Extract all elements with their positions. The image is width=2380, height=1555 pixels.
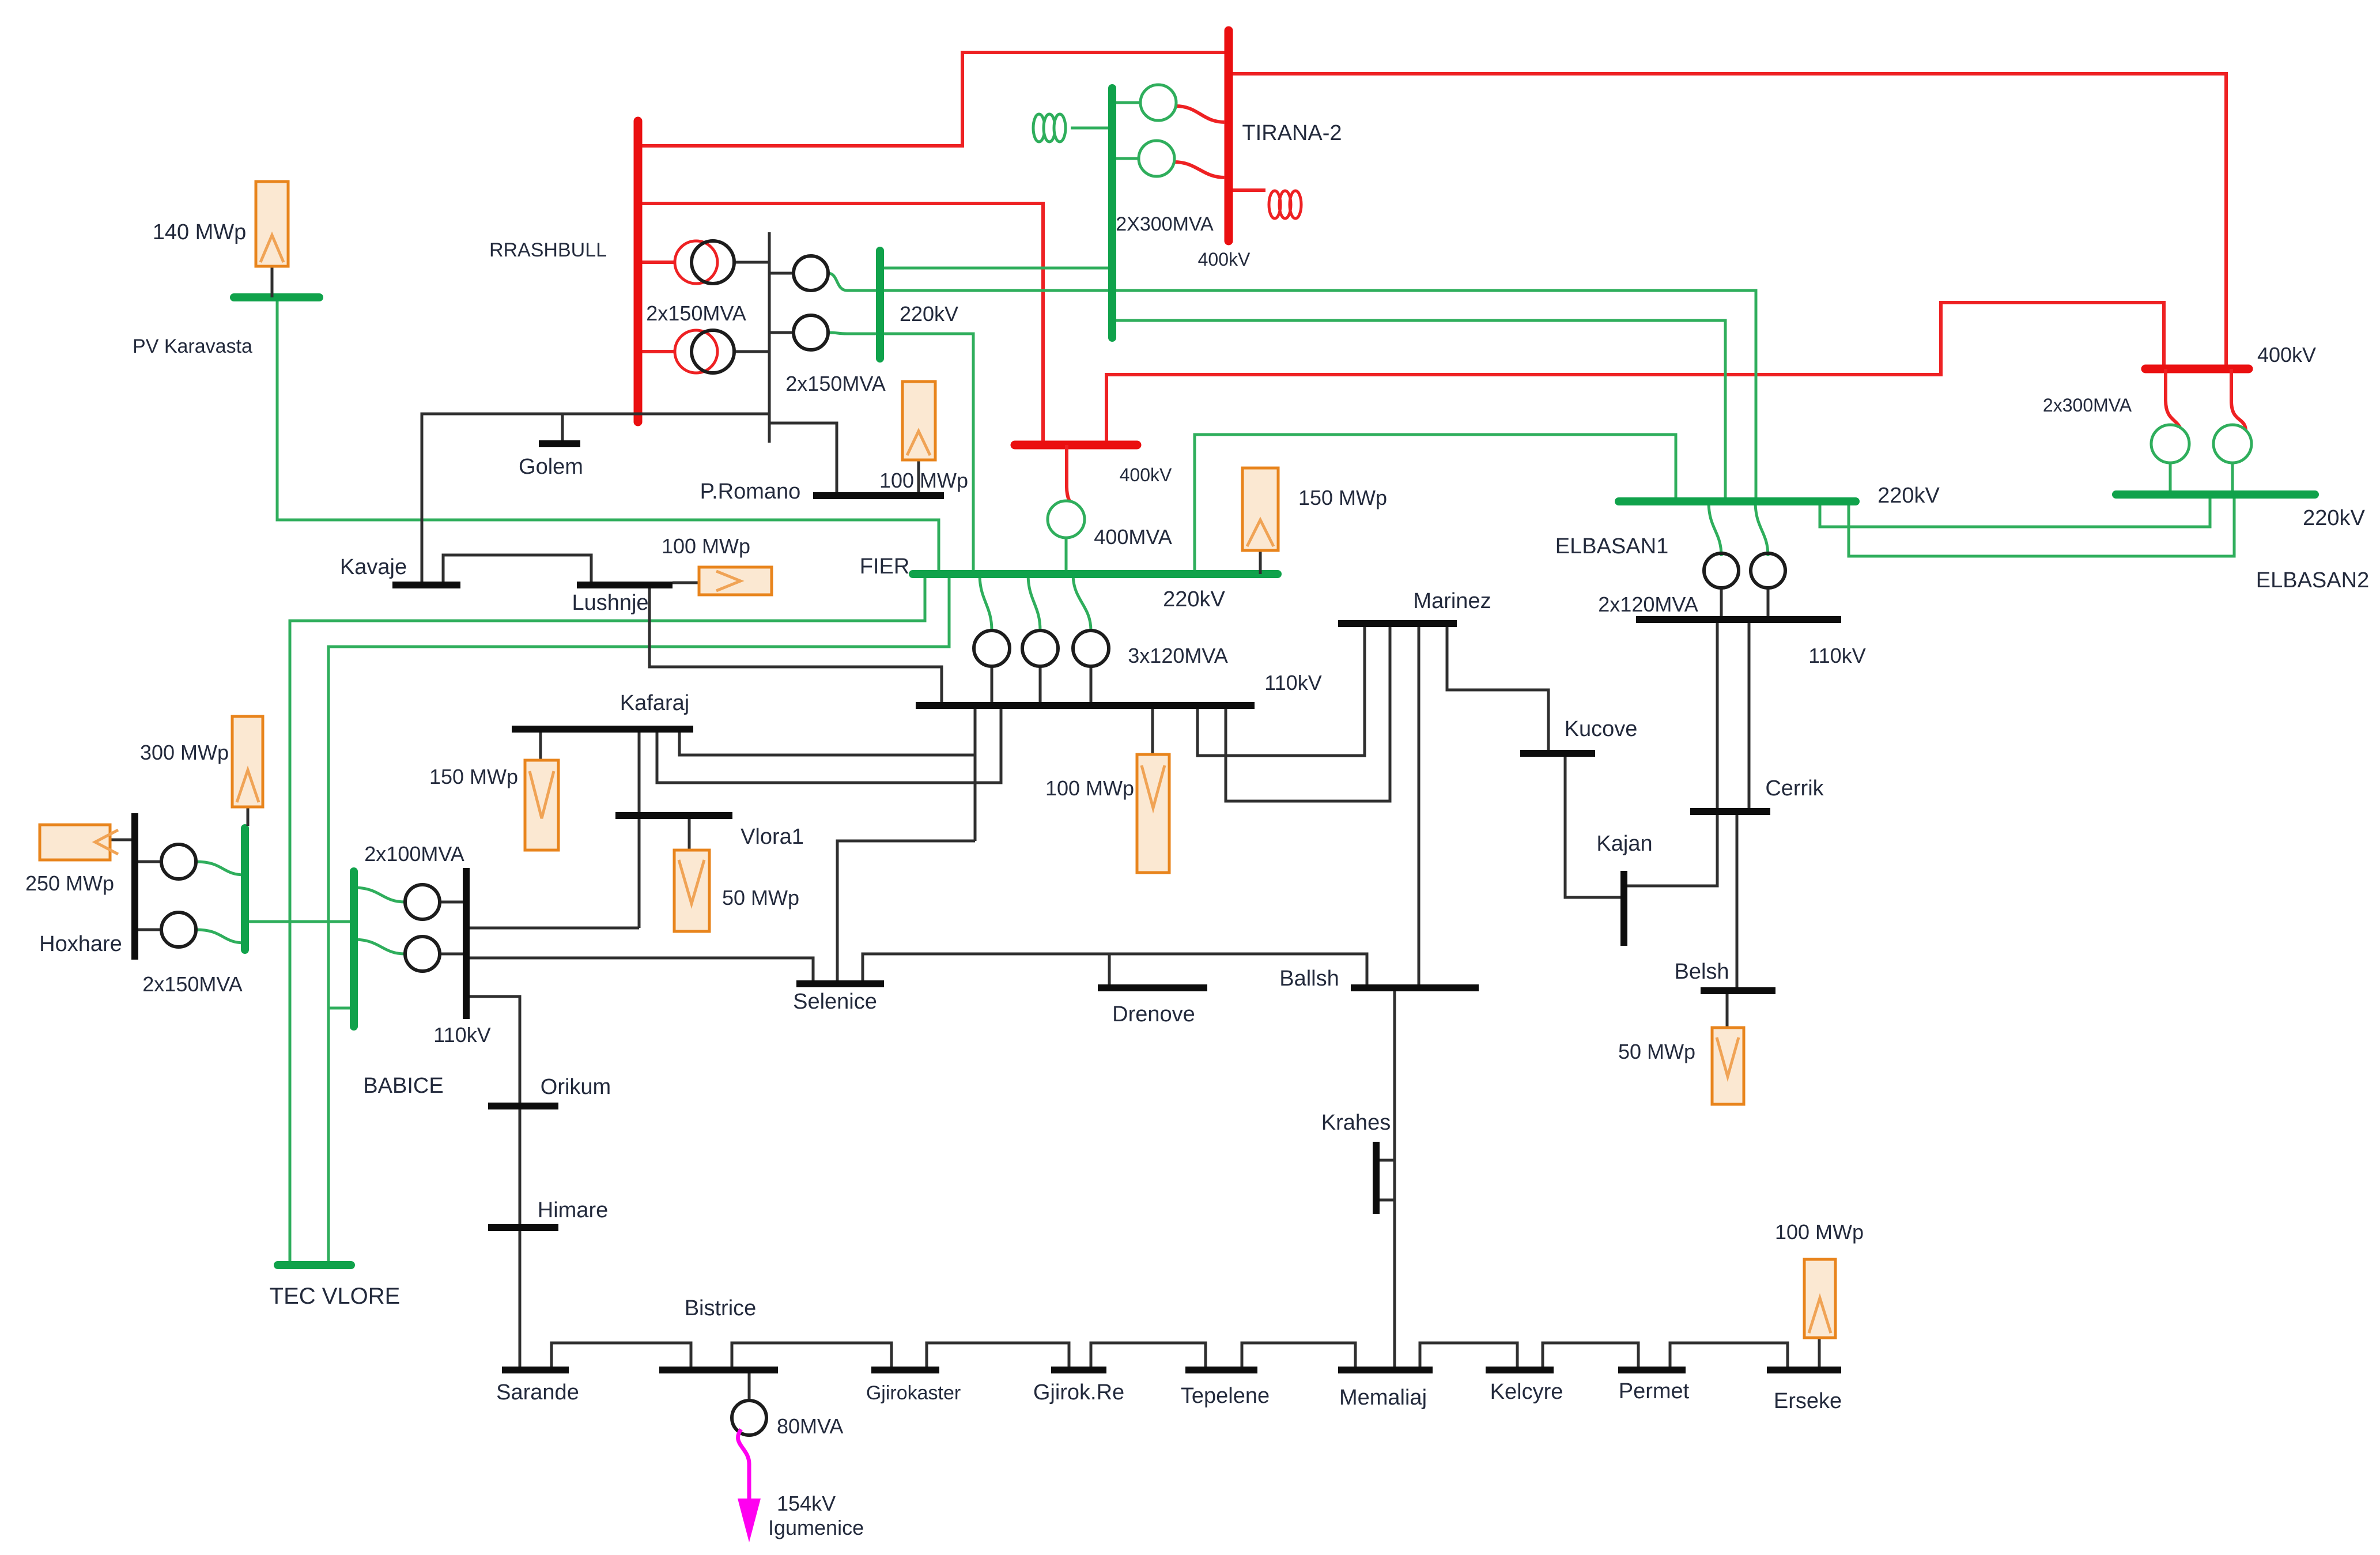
svg-text:100 MWp: 100 MWp	[1775, 1220, 1864, 1244]
svg-text:Bistrice: Bistrice	[685, 1296, 757, 1320]
svg-text:140 MWp: 140 MWp	[153, 220, 247, 244]
svg-text:400kV: 400kV	[1120, 465, 1172, 485]
svg-text:TEC VLORE: TEC VLORE	[270, 1284, 401, 1309]
svg-text:Orikum: Orikum	[541, 1075, 611, 1099]
svg-text:2x150MVA: 2x150MVA	[646, 301, 746, 325]
svg-text:80MVA: 80MVA	[777, 1414, 843, 1438]
svg-text:Himare: Himare	[538, 1198, 608, 1222]
svg-text:3x120MVA: 3x120MVA	[1128, 644, 1227, 667]
svg-text:Cerrik: Cerrik	[1765, 776, 1824, 801]
svg-text:220kV: 220kV	[1877, 484, 1940, 508]
svg-text:150 MWp: 150 MWp	[1298, 486, 1387, 509]
svg-text:TIRANA-2: TIRANA-2	[1242, 121, 1342, 145]
svg-text:100 MWp: 100 MWp	[662, 534, 750, 558]
svg-text:Drenove: Drenove	[1112, 1002, 1195, 1026]
svg-text:100 MWp: 100 MWp	[879, 469, 968, 492]
svg-text:Marinez: Marinez	[1413, 589, 1491, 613]
svg-text:150 MWp: 150 MWp	[429, 765, 518, 788]
svg-text:2x100MVA: 2x100MVA	[364, 842, 464, 866]
svg-text:2X300MVA: 2X300MVA	[1116, 213, 1214, 235]
svg-text:2x150MVA: 2x150MVA	[142, 972, 242, 996]
svg-text:220kV: 220kV	[2303, 506, 2365, 530]
svg-text:RRASHBULL: RRASHBULL	[489, 239, 607, 261]
svg-text:Selenice: Selenice	[793, 990, 877, 1014]
svg-text:Kucove: Kucove	[1565, 717, 1638, 741]
svg-text:400kV: 400kV	[1198, 249, 1251, 270]
svg-text:Tepelene: Tepelene	[1181, 1384, 1270, 1408]
svg-text:BABICE: BABICE	[363, 1074, 443, 1098]
svg-text:Memaliaj: Memaliaj	[1339, 1386, 1427, 1410]
svg-text:Sarande: Sarande	[496, 1380, 579, 1405]
svg-text:100 MWp: 100 MWp	[1045, 776, 1134, 800]
svg-text:Krahes: Krahes	[1321, 1111, 1391, 1135]
svg-text:300 MWp: 300 MWp	[140, 741, 229, 764]
svg-text:Gjirokaster: Gjirokaster	[866, 1382, 961, 1404]
svg-text:110kV: 110kV	[1264, 671, 1321, 695]
svg-text:ELBASAN1: ELBASAN1	[1555, 534, 1668, 558]
svg-text:Kelcyre: Kelcyre	[1490, 1380, 1563, 1404]
svg-text:220kV: 220kV	[1163, 587, 1225, 612]
svg-text:220kV: 220kV	[900, 302, 958, 326]
svg-text:Hoxhare: Hoxhare	[39, 932, 122, 956]
svg-text:PV Karavasta: PV Karavasta	[133, 335, 252, 357]
svg-text:400kV: 400kV	[2257, 343, 2316, 367]
svg-text:50 MWp: 50 MWp	[722, 886, 799, 909]
svg-text:50 MWp: 50 MWp	[1618, 1040, 1695, 1063]
svg-text:400MVA: 400MVA	[1094, 525, 1172, 549]
svg-text:154kV: 154kV	[777, 1492, 836, 1515]
svg-text:110kV: 110kV	[433, 1023, 490, 1047]
svg-text:FIER: FIER	[860, 554, 910, 579]
svg-text:Gjirok.Re: Gjirok.Re	[1033, 1380, 1124, 1405]
svg-text:Kavaje: Kavaje	[340, 555, 407, 579]
svg-text:2x300MVA: 2x300MVA	[2043, 395, 2132, 416]
svg-text:Kafaraj: Kafaraj	[620, 691, 689, 715]
svg-text:Ballsh: Ballsh	[1279, 967, 1339, 991]
svg-text:Vlora1: Vlora1	[741, 825, 804, 849]
svg-text:P.Romano: P.Romano	[700, 480, 801, 504]
svg-text:Lushnje: Lushnje	[572, 591, 648, 615]
svg-text:Kajan: Kajan	[1596, 832, 1652, 856]
svg-text:Igumenice: Igumenice	[768, 1516, 864, 1539]
svg-text:2x150MVA: 2x150MVA	[785, 372, 885, 395]
svg-text:Belsh: Belsh	[1674, 960, 1729, 984]
svg-text:110kV: 110kV	[1808, 644, 1865, 667]
svg-text:250 MWp: 250 MWp	[25, 871, 114, 895]
svg-text:Erseke: Erseke	[1774, 1389, 1842, 1413]
svg-text:Permet: Permet	[1619, 1379, 1690, 1403]
svg-text:Golem: Golem	[519, 455, 583, 479]
svg-text:ELBASAN2: ELBASAN2	[2256, 568, 2369, 592]
svg-text:2x120MVA: 2x120MVA	[1598, 592, 1698, 616]
